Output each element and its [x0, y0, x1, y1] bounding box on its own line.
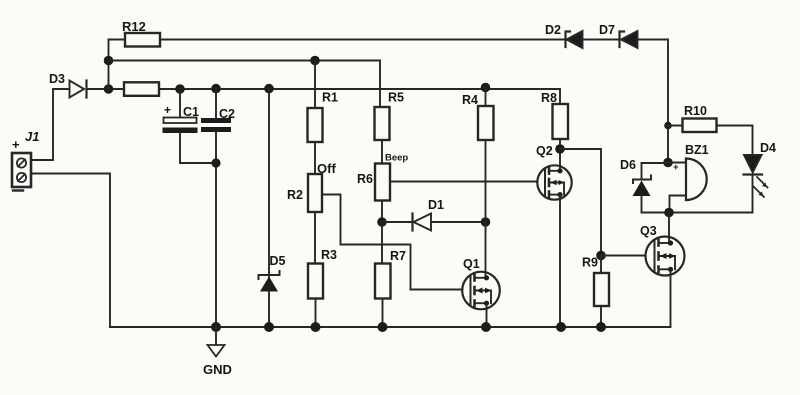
wire Q2 drain node to R9 node [560, 149, 601, 256]
svg-text:D6: D6 [620, 158, 636, 172]
svg-text:R6: R6 [357, 172, 373, 186]
wire J1 plus to D3 [31, 89, 53, 160]
svg-text:Q1: Q1 [463, 257, 480, 271]
wire R12 left lead [109, 39, 126, 41]
svg-text:R1: R1 [322, 91, 338, 105]
resistor R1 [308, 61, 323, 143]
svg-text:C2: C2 [219, 107, 235, 121]
svg-text:D1: D1 [428, 198, 444, 212]
wire R2 to R3 [314, 212, 316, 264]
wire D6 top to buzzer node [642, 162, 669, 164]
node junction ground rail Q1 [481, 322, 491, 332]
svg-text:D4: D4 [760, 141, 776, 155]
resistor R10 [683, 119, 717, 133]
node junction (601,255.5) R9 top [596, 251, 606, 261]
wire R3 to ground rail [315, 299, 317, 328]
node junction (269,89) D5 branch [264, 84, 274, 94]
wire row2 [109, 60, 381, 62]
zener diode D6 [633, 163, 652, 213]
diode D2 [566, 31, 583, 48]
node junction (485,87.5) R4 top [481, 83, 491, 93]
wire R6 to D1 node [381, 201, 383, 223]
wire D1 to R4 branch [431, 221, 486, 223]
potentiometer R2 [308, 174, 322, 212]
node junction ground rail R3 [311, 322, 321, 332]
wire row1 right corner down [638, 40, 668, 163]
diode D7 [620, 31, 638, 48]
wire vertical supply branch x108 [108, 40, 110, 90]
wire D3 cathode to node [87, 88, 125, 90]
resistor R5 [375, 107, 390, 140]
wire Q3 drain [668, 213, 670, 244]
wire row1: R12 to D2 [160, 39, 565, 41]
wire D5 branch vertical [268, 89, 270, 327]
node junction (108,89) [104, 84, 114, 94]
wire R2 wiper to Q1 gate [322, 195, 463, 290]
svg-text:BZ1: BZ1 [685, 143, 709, 157]
wire R9 node to Q3 gate [601, 255, 645, 257]
svg-text:R4: R4 [462, 93, 478, 107]
svg-text:R5: R5 [388, 91, 404, 105]
svg-text:D7: D7 [599, 23, 615, 37]
svg-text:Q2: Q2 [536, 144, 553, 158]
wire R10 to D4 [717, 126, 753, 156]
transistor Q3 [646, 237, 685, 276]
node junction ground rail C2 [211, 322, 221, 332]
wire R4 top lead [485, 88, 487, 107]
transistor Q2 [537, 165, 571, 199]
buzzer BZ1 [670, 159, 707, 213]
ground symbol GND [208, 327, 225, 357]
node junction (485.5,222) [481, 217, 491, 227]
wire D4 cathode down and left to buzzer bottom [642, 175, 753, 213]
node junction (108,61) [104, 56, 114, 66]
resistor R3 [308, 264, 323, 299]
svg-text:+: + [673, 162, 679, 173]
svg-text:J1: J1 [25, 129, 39, 144]
svg-text:Off: Off [317, 161, 336, 176]
diode D1 [413, 214, 432, 231]
node junction ground rail D5 [264, 322, 274, 332]
svg-text:R2: R2 [287, 188, 303, 202]
wire row2 corner down to R5 [379, 61, 381, 108]
wire D1 anode lead [382, 221, 413, 223]
svg-text:C1: C1 [183, 105, 199, 119]
diode D3 [70, 81, 87, 98]
node junction (216,89) C2 top [211, 84, 221, 94]
node junction ground rail R7 [378, 322, 388, 332]
svg-text:R10: R10 [684, 104, 707, 118]
transistor Q1 [462, 272, 500, 310]
LED D4 [744, 155, 768, 197]
svg-text:R8: R8 [541, 91, 557, 105]
wire R6 junction to R7 [381, 222, 383, 264]
svg-text:+: + [12, 137, 20, 152]
wire J1 minus down to ground rail [31, 174, 110, 328]
wire R6 to Q2 gate [390, 181, 538, 183]
node junction (180,89) C1 top [175, 84, 185, 94]
node junction (669,212.5) Q3 drain [664, 208, 674, 218]
svg-text:R9: R9 [582, 256, 598, 270]
resistor R9 [594, 273, 609, 306]
resistor R8 [553, 104, 569, 139]
wire Q1 source to ground rail [486, 303, 488, 327]
node junction (216,163) C1 bottom [211, 158, 220, 167]
svg-text:+: + [164, 103, 171, 117]
wire R5 to R6 [381, 140, 383, 164]
node junction (560,149) [555, 144, 565, 154]
connector J1 [12, 153, 31, 191]
resistor R7 [375, 264, 391, 299]
capacitor C2 [201, 89, 231, 327]
wire buzzer plus lead [668, 162, 686, 164]
wire R7 to ground rail [382, 299, 384, 328]
capacitor C1 [163, 89, 217, 163]
resistor R12 [125, 33, 160, 47]
wire Q3 source to ground rail [110, 269, 671, 327]
wire row3 corner down to R8 [559, 89, 561, 104]
zener diode D5 [259, 271, 280, 292]
node junction (382,222) [377, 217, 387, 227]
svg-text:R7: R7 [390, 249, 406, 263]
svg-text:GND: GND [203, 362, 232, 377]
svg-text:D2: D2 [545, 23, 561, 37]
wire R9 leads [600, 256, 602, 328]
node junction (315,60) R1 top [310, 56, 320, 66]
wire row3 right of resistor [159, 88, 560, 90]
wire R4 to D1 node to Q1 drain [485, 140, 487, 278]
svg-text:Beep: Beep [385, 153, 408, 164]
resistor R11 (unlabeled, row3) [124, 82, 159, 96]
node junction (668,162.5) buzzer plus [663, 158, 673, 168]
resistor R4 [478, 106, 494, 140]
node junction (668,125.5) R10 left [664, 122, 672, 130]
wire row3 left [53, 88, 70, 90]
wire R10 left lead [668, 125, 683, 127]
svg-text:R3: R3 [321, 248, 337, 262]
svg-text:R12: R12 [122, 19, 146, 34]
wire D2 to D7 [584, 39, 619, 41]
svg-text:D3: D3 [49, 72, 65, 86]
wire R8 to Q2 drain [559, 139, 561, 171]
resistor R6 [375, 164, 390, 201]
node junction ground rail Q2 [556, 322, 566, 332]
wire Q2 source to ground rail [559, 195, 561, 327]
svg-text:Q3: Q3 [640, 224, 657, 238]
wire R1 to R2 [314, 142, 316, 174]
node junction ground rail R9 [596, 322, 606, 332]
svg-text:D5: D5 [270, 254, 286, 268]
